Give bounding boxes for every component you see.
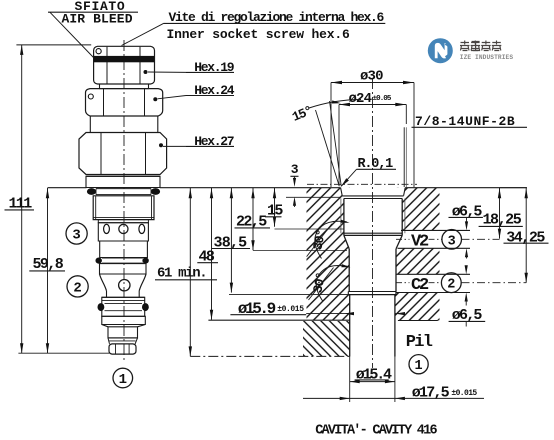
svg-text:2: 2 <box>73 281 81 297</box>
svg-text:61 min.: 61 min. <box>157 266 206 282</box>
svg-text:Inner socket screw hex.6: Inner socket screw hex.6 <box>167 27 351 42</box>
svg-text:1: 1 <box>119 372 127 388</box>
svg-text:CAVITA'- CAVITY 416: CAVITA'- CAVITY 416 <box>315 424 437 439</box>
svg-text:ø15.9: ø15.9 <box>238 300 276 318</box>
svg-text:±0.05: ±0.05 <box>373 95 392 103</box>
svg-text:AIR BLEED: AIR BLEED <box>62 12 133 27</box>
svg-text:±0.015: ±0.015 <box>277 305 304 314</box>
svg-text:18,25: 18,25 <box>483 211 522 228</box>
svg-text:2: 2 <box>447 278 455 293</box>
svg-text:3: 3 <box>448 234 456 249</box>
svg-text:1: 1 <box>415 359 423 374</box>
svg-text:V2: V2 <box>411 233 429 252</box>
svg-text:Pil: Pil <box>406 333 433 352</box>
svg-text:Vite di regolazione interna he: Vite di regolazione interna hex.6 <box>169 10 385 25</box>
svg-text:C2: C2 <box>411 276 429 295</box>
svg-text:ø30: ø30 <box>360 68 383 84</box>
svg-text:3: 3 <box>72 228 80 244</box>
svg-text:±0.015: ±0.015 <box>451 389 477 398</box>
svg-text:7/8-14UNF-2B: 7/8-14UNF-2B <box>415 114 515 129</box>
svg-text:ø24: ø24 <box>349 91 372 107</box>
svg-text:IZE INDUSTRIES: IZE INDUSTRIES <box>460 54 514 61</box>
